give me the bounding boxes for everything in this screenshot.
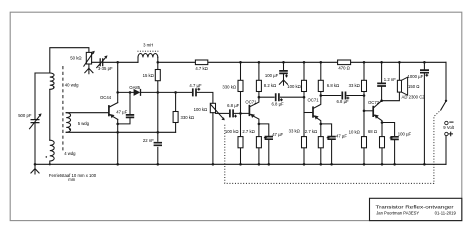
svg-text:100 µF: 100 µF — [398, 131, 412, 136]
svg-text:OC71: OC71 — [308, 98, 320, 103]
wire detector line y92.4 — [118, 92, 213, 103]
svg-text:6.8 µF: 6.8 µF — [272, 101, 285, 106]
wire bottom rail — [34, 163, 446, 166]
capacitor C5 4.7 uF — [189, 83, 202, 96]
capacitor C1 500 pF variable — [18, 73, 41, 169]
switch S1 (on volume pot) — [441, 62, 447, 110]
svg-text:47 µF: 47 µF — [336, 133, 347, 138]
wire OC71b collector to C10 — [321, 95, 341, 97]
svg-text:330 kΩ: 330 kΩ — [181, 115, 195, 120]
resistor R12 68 Ohm (OC72 emitter) — [368, 121, 385, 165]
resistor R5 100 kOhm (OC71a bottom bias) — [225, 113, 243, 165]
coil L3 4 wdg — [46, 140, 77, 164]
wire top rail — [158, 61, 446, 63]
wire OC72 collector to speaker — [382, 92, 400, 101]
svg-text:mm: mm — [68, 177, 76, 182]
capacitor C12 100 uF (emitter bypass) — [382, 123, 412, 166]
wire OC44 emitter down to bottom rail — [116, 119, 119, 165]
svg-text:OC72: OC72 — [368, 100, 380, 105]
svg-text:68 Ω: 68 Ω — [368, 129, 377, 134]
svg-text:6.8 kΩ: 6.8 kΩ — [327, 83, 339, 88]
svg-text:100 µF: 100 µF — [265, 73, 279, 78]
wire top-left loop to 50k pot — [50, 48, 89, 73]
svg-text:22 nF: 22 nF — [143, 138, 154, 143]
capacitor C11 47 uF — [321, 124, 348, 166]
svg-text:500 pF: 500 pF — [18, 113, 32, 118]
transistor Q3 OC71 — [304, 96, 321, 124]
capacitor C9 100 uF decoupling — [265, 61, 288, 80]
ground at 50k pot — [85, 68, 93, 73]
svg-text:1000 µF: 1000 µF — [408, 74, 424, 79]
loudspeaker LS 150 Ohm AD 2300 CZ — [397, 61, 425, 100]
wire pot to trimmer to 3mH — [92, 61, 138, 63]
svg-text:6.8 µF: 6.8 µF — [227, 103, 240, 108]
wire audio return (5wdg bottom along y132) — [66, 131, 175, 133]
mechanical link dashed (pot to switch) — [225, 110, 441, 183]
capacitor C3 47 uF (detector to emitter) — [116, 91, 134, 124]
svg-text:15 kΩ: 15 kΩ — [143, 73, 154, 78]
capacitor C7 6.8 uF — [272, 93, 304, 106]
emitter network OC71b: 2.7k + 47uF — [305, 123, 324, 166]
svg-text:3-35 pF: 3-35 pF — [98, 66, 113, 71]
svg-text:Jan Poortman PA3ESY: Jan Poortman PA3ESY — [376, 211, 419, 216]
ground at 100uF — [279, 80, 287, 85]
svg-text:AD 2300 CZ: AD 2300 CZ — [402, 95, 426, 100]
svg-text:47 µF: 47 µF — [272, 132, 283, 137]
svg-text:4.7 µF: 4.7 µF — [189, 83, 202, 88]
node collector/detector — [116, 91, 119, 94]
resistor R13 470 Ohm (series top rail) — [338, 60, 351, 71]
resistor R6 8.2 kOhm (OC71a collector) — [256, 61, 276, 98]
capacitor C14 1000 uF — [420, 61, 429, 166]
svg-text:47 µF: 47 µF — [116, 109, 127, 114]
svg-text:4 wdg: 4 wdg — [64, 151, 76, 156]
svg-text:5 wdg: 5 wdg — [78, 121, 90, 126]
svg-text:150 Ω: 150 Ω — [408, 84, 419, 89]
svg-text:2.7 kΩ: 2.7 kΩ — [305, 129, 317, 134]
coil L2 5 wdg — [66, 113, 89, 133]
svg-text:8.2 kΩ: 8.2 kΩ — [264, 83, 276, 88]
inductor L4 3 mH — [137, 43, 158, 63]
svg-text:2.7 kΩ: 2.7 kΩ — [242, 129, 254, 134]
svg-text:33 kΩ: 33 kΩ — [289, 129, 300, 134]
wire 5wdg top to OC44 base — [66, 112, 108, 114]
capacitor C6 6.8 uF — [227, 103, 248, 117]
svg-text:100 kΩ: 100 kΩ — [225, 129, 239, 134]
title block box — [370, 198, 462, 220]
potentiometer P1 50 kOhm — [70, 51, 95, 69]
svg-text:Transistor Reflex-ontvanger: Transistor Reflex-ontvanger — [376, 204, 455, 209]
resistor R4 330 kOhm (OC71a top bias) — [222, 61, 243, 113]
resistor R7 100 kOhm (OC71b top bias) — [287, 61, 306, 113]
resistor R11 10 kOhm (OC72 bottom bias) — [349, 111, 367, 166]
wire OC44 collector up to top node — [116, 61, 119, 103]
ferrite rod (dashed) — [49, 66, 97, 182]
transistor Q2 OC71 — [245, 97, 259, 124]
resistor R10 33 kOhm (OC72 top bias) — [349, 61, 367, 112]
resistor R3 330 kOhm (detector load) — [173, 91, 194, 132]
ground at 500pF — [31, 169, 39, 174]
svg-text:40 wdg: 40 wdg — [65, 83, 79, 88]
svg-text:1.2 nF: 1.2 nF — [384, 77, 396, 82]
capacitor C4 22 nF — [143, 138, 163, 147]
svg-text:4.7 kΩ: 4.7 kΩ — [195, 66, 207, 71]
svg-text:OC44: OC44 — [100, 95, 112, 100]
svg-text:OC71: OC71 — [245, 100, 257, 105]
capacitor C10 6.8 uF — [337, 92, 364, 105]
capacitor C8 47 uF — [259, 124, 284, 166]
title text — [376, 204, 457, 215]
svg-text:50 kΩ: 50 kΩ — [70, 55, 81, 60]
diode D1 OA85 — [129, 85, 141, 96]
svg-text:6.8 µF: 6.8 µF — [337, 99, 350, 104]
svg-text:330 kΩ: 330 kΩ — [222, 85, 236, 90]
capacitor C13 1.2 nF — [377, 61, 396, 101]
svg-text:9 Volt: 9 Volt — [443, 125, 454, 130]
coil L1 40 wdg — [50, 73, 79, 89]
svg-text:100 kΩ: 100 kΩ — [287, 84, 301, 89]
wire OC71a collector to C7 — [259, 96, 274, 98]
svg-text:100 kΩ: 100 kΩ — [194, 107, 208, 112]
battery BT1 9 Volt — [443, 121, 454, 164]
wire between 40wdg and 4wdg coils — [49, 90, 51, 141]
resistor R1 4.7 kOhm (series top rail) — [195, 60, 207, 71]
transistor Q1 OC44 — [100, 95, 118, 119]
svg-text:01-11-2019: 01-11-2019 — [435, 211, 457, 216]
svg-text:33 kΩ: 33 kΩ — [349, 83, 360, 88]
emitter network OC71a: 2.7k + 47uF — [242, 123, 261, 166]
svg-text:470 Ω: 470 Ω — [338, 66, 349, 71]
svg-text:3 mH: 3 mH — [143, 43, 153, 48]
svg-text:OA85: OA85 — [129, 85, 141, 90]
capacitor C2 3-35 pF trimmer — [97, 55, 113, 71]
svg-text:10 kΩ: 10 kΩ — [349, 130, 360, 135]
transistor Q4 OC72 — [364, 99, 383, 122]
resistor R8 33 kOhm (OC71b bottom bias) — [289, 113, 307, 166]
wire 500pF tap to coil top — [35, 72, 50, 74]
potentiometer P2 100 kOhm volume — [194, 103, 229, 164]
resistor R9 6.8 kOhm (OC71b collector) — [318, 61, 339, 97]
resistor R2 15 kOhm — [143, 61, 161, 166]
